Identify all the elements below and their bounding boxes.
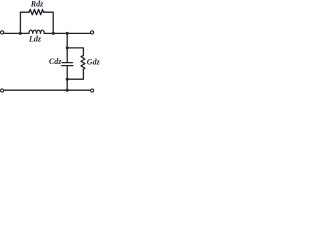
wire shunt branch vertical: [66, 33, 68, 62]
wire top rail right segment: [53, 32, 90, 34]
svg-text:Cdz: Cdz: [49, 57, 62, 66]
terminal port bottom-right: [91, 89, 94, 92]
terminal port top-left: [0, 31, 3, 34]
wire resistor to right riser: [44, 12, 54, 33]
node junction J4: [66, 46, 69, 49]
wire bottom rail: [4, 89, 91, 91]
node junction J2: [52, 32, 55, 35]
terminal port bottom-left: [0, 89, 3, 92]
svg-text:Rdz: Rdz: [30, 0, 44, 9]
wire capacitor to bottom rail: [66, 66, 68, 91]
terminal port top-right: [91, 31, 94, 34]
resistor Gdz: [81, 56, 85, 70]
node junction J6: [66, 89, 69, 92]
svg-text:Ldz: Ldz: [28, 34, 42, 43]
wire to conductance branch: [67, 48, 83, 56]
node junction J5: [66, 78, 69, 81]
inductor Ldz: [20, 30, 53, 33]
node junction J1: [19, 32, 22, 35]
wire left riser to resistor branch: [20, 12, 29, 33]
wire top rail left segment: [4, 32, 21, 34]
resistor Rdz: [29, 9, 44, 14]
wire conductance bottom return: [67, 69, 83, 79]
node junction J3: [66, 32, 69, 35]
svg-text:Gdz: Gdz: [87, 57, 100, 66]
capacitor Cdz: [62, 63, 73, 66]
